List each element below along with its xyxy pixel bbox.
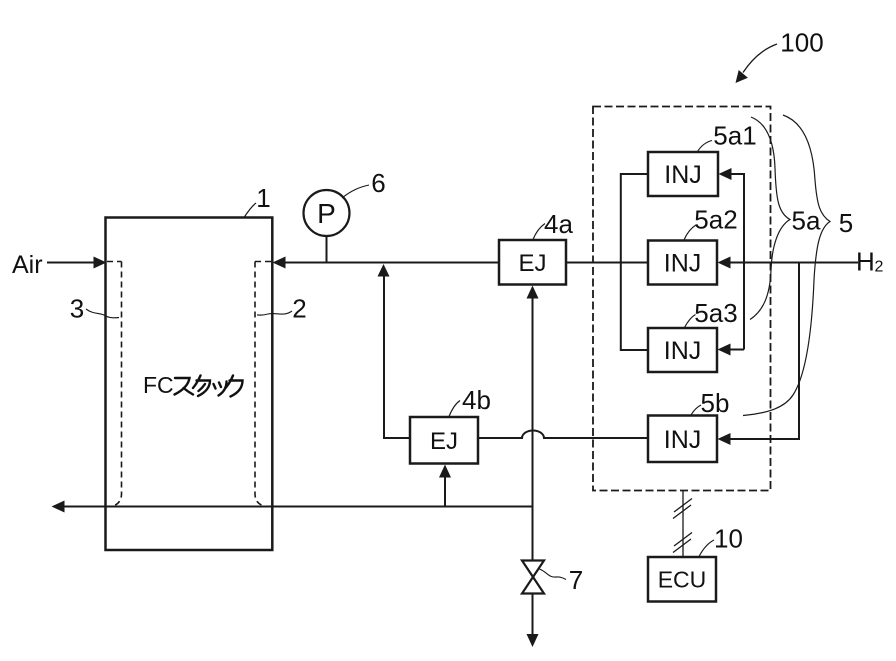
injector INJ 5a2 box — [648, 241, 717, 285]
leader for label 3 — [86, 309, 119, 318]
wire: feed stub into INJ 5a3 with arrow — [730, 349, 744, 351]
wire: pressure sensor stub — [326, 235, 328, 263]
wire: anode off-gas line through FC stack with left arrow — [63, 506, 533, 508]
injector INJ 5a1 box — [648, 152, 718, 196]
reference numeral 5a3 — [694, 298, 737, 328]
wire: EJ 4b output riser to main line with up arrow — [384, 275, 410, 438]
label INJ in 5a2 — [664, 250, 702, 278]
label ECU in 10 — [658, 567, 707, 593]
wire: branch up into EJ 4b suction with arrow — [444, 477, 446, 507]
svg-text:1: 1 — [256, 183, 270, 213]
wire: right feed bus to INJ 5a1 with arrow — [730, 174, 744, 350]
brace 5 spanning all injectors — [743, 115, 830, 416]
reference numeral 5a — [792, 206, 821, 236]
svg-text:INJ: INJ — [664, 337, 702, 365]
label H2 — [856, 247, 884, 277]
label P in sensor — [317, 198, 336, 229]
wire: EJ 4b to INJ 5b line with hop over purge line — [478, 431, 648, 439]
svg-text:2: 2 — [875, 259, 884, 276]
brace 5a spanning INJ 5a1..5a3 — [750, 117, 790, 320]
leader for label 5a1 — [698, 141, 713, 152]
svg-text:ECU: ECU — [658, 567, 707, 593]
svg-text:FC: FC — [143, 372, 174, 398]
leader for label 4b — [449, 401, 460, 417]
reference numeral 2 — [292, 294, 306, 324]
svg-text:10: 10 — [714, 524, 743, 554]
svg-text:5b: 5b — [701, 388, 730, 418]
leader for label 6 — [342, 185, 369, 198]
wire: H2 supply line into INJ 5a2 with arrow — [729, 262, 858, 264]
reference numeral 5b — [701, 388, 730, 418]
label INJ in 5a3 — [664, 337, 702, 365]
svg-text:100: 100 — [780, 28, 823, 58]
svg-text:2: 2 — [292, 294, 306, 324]
leader for label 4a — [533, 224, 545, 240]
svg-text:3: 3 — [70, 294, 84, 324]
reference numeral 7 — [569, 565, 583, 595]
svg-text:Air: Air — [12, 251, 43, 279]
svg-text:4b: 4b — [462, 385, 491, 415]
svg-text:P: P — [317, 198, 336, 229]
leader for label 1 — [244, 203, 256, 218]
signal line from unit 100 to ECU with double-slash marks — [673, 491, 692, 558]
label INJ in 5a1 — [664, 161, 702, 189]
label EJ in 4b — [430, 428, 458, 455]
wire: exhaust line below valve with down arrow — [532, 594, 534, 636]
leader for label 10 — [699, 540, 714, 557]
svg-text:EJ: EJ — [518, 250, 546, 277]
leader for label 5a2 — [684, 225, 696, 240]
label EJ in 4a — [518, 250, 546, 277]
reference numeral 4b — [462, 385, 491, 415]
leader for label 2 — [257, 311, 292, 315]
reference numeral 4a — [544, 209, 573, 239]
wire: purge line from EJ 4a bottom down to valve, up arrow into EJ 4a — [532, 297, 534, 561]
dashed cathode separator 2 inside FC stack — [255, 262, 271, 507]
injector INJ 5a3 box — [648, 328, 717, 372]
svg-text:EJ: EJ — [430, 428, 458, 455]
leader for label 5a3 — [685, 315, 696, 328]
leader for label 7 — [540, 569, 567, 580]
reference numeral 5a2 — [694, 205, 737, 235]
svg-text:5: 5 — [839, 208, 853, 238]
dashed unit box 100 — [593, 107, 771, 491]
wire: H2 branch down to INJ 5b with arrow — [730, 263, 799, 440]
label FC stack text — [143, 372, 243, 398]
svg-text:INJ: INJ — [664, 250, 702, 278]
svg-text:6: 6 — [371, 168, 385, 198]
reference numeral 100 — [780, 28, 823, 58]
svg-text:H: H — [856, 247, 875, 277]
svg-text:5a: 5a — [792, 206, 821, 236]
leader for label 5b — [691, 405, 701, 415]
dashed anode separator 3 inside FC stack — [107, 262, 122, 507]
label Air — [12, 251, 43, 279]
svg-text:5a2: 5a2 — [694, 205, 737, 235]
svg-text:7: 7 — [569, 565, 583, 595]
svg-text:INJ: INJ — [664, 161, 702, 189]
wire: main line EJ 4a to INJ 5a2 — [566, 262, 648, 264]
reference numeral 5a1 — [713, 121, 756, 151]
wire: Air inlet arrow into FC stack — [47, 262, 95, 264]
reference numeral 6 — [371, 168, 385, 198]
reference numeral 5 — [839, 208, 853, 238]
svg-text:5a1: 5a1 — [713, 121, 756, 151]
purge valve 7 bowtie — [522, 561, 544, 594]
svg-text:4a: 4a — [544, 209, 573, 239]
pressure sensor P circle 6 — [304, 190, 350, 236]
injector INJ 5b box — [648, 416, 717, 463]
label INJ in 5b — [664, 426, 702, 454]
wire: main hydrogen line from EJ 4a to FC stack with arrow — [284, 262, 499, 264]
reference numeral 1 — [256, 183, 270, 213]
reference numeral 10 — [714, 524, 743, 554]
svg-text:5a3: 5a3 — [694, 298, 737, 328]
reference numeral 3 — [70, 294, 84, 324]
svg-text:INJ: INJ — [664, 426, 702, 454]
leader arrow for label 100 — [743, 44, 777, 73]
ejector EJ 4b box — [410, 417, 478, 464]
wire: left output bus joining INJ 5a1 and INJ 5a3 — [621, 174, 648, 350]
ejector EJ 4a box — [499, 240, 566, 285]
FC stack box 1 — [106, 218, 273, 551]
ECU box 10 — [648, 557, 716, 602]
